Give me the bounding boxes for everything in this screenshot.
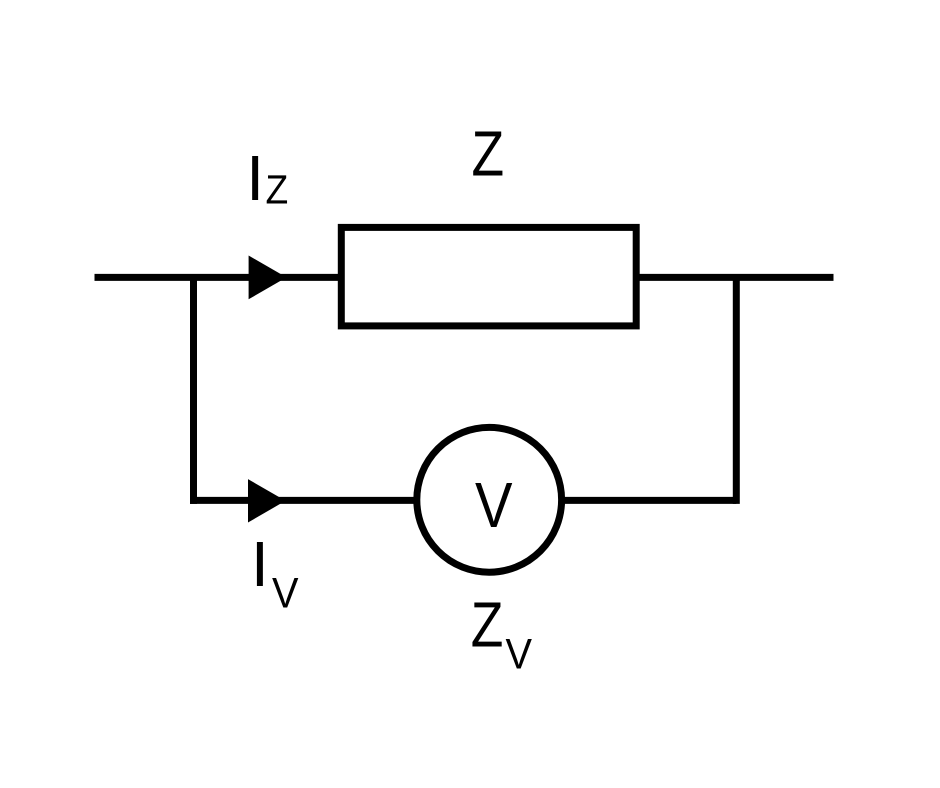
impedance Z box [341,227,636,326]
arrow IV current [248,479,286,522]
svg-text:I: I [246,142,264,214]
svg-text:V: V [475,469,513,541]
arrow IZ current [249,256,287,300]
wire top horizontal [95,274,834,281]
voltmeter V circle [417,427,562,572]
wire left branch vertical [190,274,197,504]
wire right vertical [733,274,740,504]
svg-text:I: I [251,528,269,600]
svg-text:Z: Z [472,118,505,190]
svg-text:Z: Z [471,588,504,660]
svg-text:V: V [506,631,533,679]
svg-text:Z: Z [266,166,289,212]
wire bottom horizontal [190,497,736,504]
svg-text:V: V [272,570,299,618]
